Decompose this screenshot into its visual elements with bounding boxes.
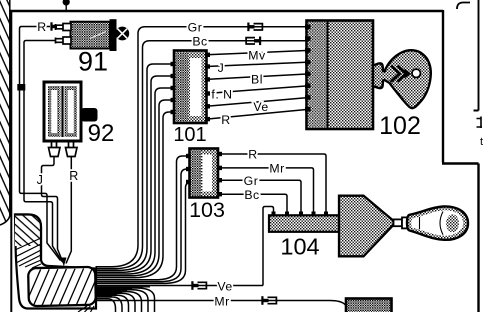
ignition switch 102 [305,21,373,130]
svg-text:J: J [37,173,44,187]
svg-text:104: 104 [280,234,319,260]
wire lower bundle 3 [96,292,142,312]
wire: top frame line [10,10,443,12]
wire bundle line w2 [96,76,175,272]
wire lower bundle 2 [96,290,149,312]
wire: dense bundle shading at column exit [96,287,151,296]
svg-text:J: J [218,61,225,75]
wire J (from 92 left pin) [37,157,63,263]
wire: top right hook [457,3,470,10]
wire R (from 92 right pin) [66,157,79,264]
connector block 103 [186,149,225,223]
lighting switch 104 : knob [407,206,468,239]
wire Gr (to ignition switch) [144,21,309,35]
svg-text:92: 92 [88,120,115,147]
wire lower bundle 4 [96,293,136,312]
wire bundle line w5 [96,112,175,278]
wire lower bundle 6 [96,297,123,312]
wire R (from 91 upper pin) [20,20,61,261]
svg-text:Bc: Bc [192,35,207,49]
wire bundle line 103-c [96,182,192,283]
svg-text:Ve: Ve [217,280,232,294]
key of ignition switch 102 [373,50,431,140]
wall: left hatched band [0,0,10,225]
svg-text:Bl: Bl [251,73,263,87]
wall: column barrel (hatched blob) [24,267,111,307]
wire bundle line 103-a [96,156,191,280]
wire from 91 lower pin [24,41,62,262]
svg-text:Mv: Mv [248,49,266,63]
svg-text:Bc: Bc [244,188,259,202]
wire Gr (103 to 104) [222,174,301,214]
svg-text:t: t [480,136,483,148]
wire bundle line w4 [96,100,175,276]
wire lower bundle 1 [96,288,155,312]
svg-text:Gr: Gr [188,21,203,35]
svg-text:R: R [37,20,46,34]
lighting switch 104 : bar [269,212,339,232]
svg-text:f. N: f. N [211,88,232,102]
wire Bc (103 to 104) [222,188,287,214]
svg-text:Mr: Mr [269,162,284,176]
lighting switch 104 : shaft [394,217,411,228]
wire R (101 to 102) [207,109,310,127]
fuse block (bottom right, cut off) [346,299,392,314]
switch 92 : body [44,82,114,147]
wire lower bundle 7 [96,299,116,312]
wire bundle line w3 [96,88,175,274]
svg-text:Mr: Mr [214,295,229,309]
svg-text:R: R [248,148,257,162]
wire f. N (101 to 102) [207,86,310,102]
wire bundle line 103-b [96,169,191,282]
svg-text:R: R [221,113,230,127]
node: splice on left wires [17,84,25,91]
wire: left frame line [10,11,12,312]
node: junction dot top left [63,0,70,11]
svg-text:101: 101 [173,124,206,146]
wire Mr (bottom, to fuse block) [96,295,348,309]
pilot lamp 91 : lower pin [56,37,72,44]
pilot lamp 91 : bulb [115,27,129,41]
switch 92 : lever [81,108,98,122]
switch 92 : right pin [66,141,78,157]
svg-text:R: R [69,169,79,183]
node: V junction at column [61,258,67,267]
pilot lamp 91 : body [71,19,130,76]
wire Mv (101 to 102) [207,49,310,63]
wire Ve (bottom, to 104) [96,207,274,294]
wall: column casing (hatched arm) [15,215,96,309]
wire R (103 to 104) [222,148,326,215]
wire J (101 to 102) [207,61,310,75]
svg-text:Gr: Gr [244,174,259,188]
wire Bc (to ignition switch) [149,35,309,49]
wire: right frame line with step [442,10,479,312]
svg-text:103: 103 [189,198,225,222]
svg-text:102: 102 [379,112,421,140]
wire lower bundle 5 [96,295,129,312]
wire bundle line w1 [96,64,175,270]
wire: three stubs below barrel [78,306,94,312]
lighting switch 104 : cone body [280,196,393,260]
wire bundle line Gr [96,27,146,267]
switch 92 : left pin [49,141,61,157]
pilot lamp 91 : upper pin [56,24,72,31]
wire Mr (103 to 104) [222,162,314,215]
wire Bl (101 to 102) [207,73,310,87]
wire Ve (101 to 102) [207,98,310,115]
connector block 101 [171,51,211,147]
ground: small terminal symbol right edge [477,117,484,149]
svg-text:Ve: Ve [253,100,268,114]
wire: right edge vertical wire with end tick [474,0,479,111]
wire bundle line Bc [96,41,150,269]
svg-text:91: 91 [78,47,108,77]
